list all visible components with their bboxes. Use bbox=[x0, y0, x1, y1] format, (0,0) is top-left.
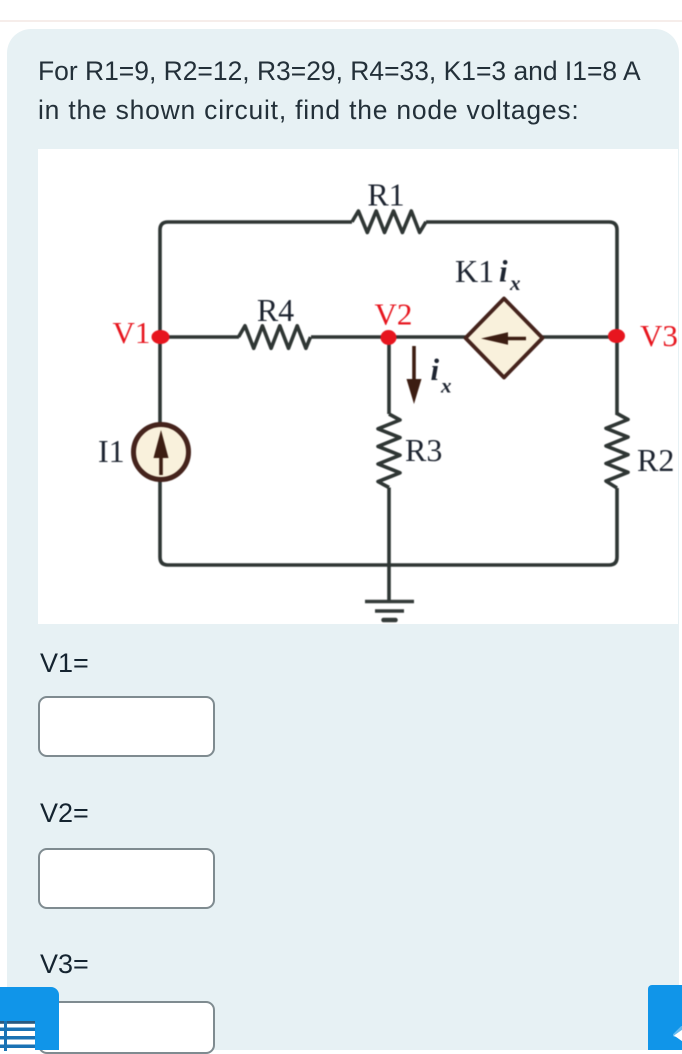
svg-text:K1: K1 bbox=[455, 253, 494, 289]
question text bbox=[38, 52, 682, 129]
svg-text:i: i bbox=[499, 254, 508, 289]
svg-text:I1: I1 bbox=[98, 433, 125, 469]
wire top-left from R1 to corner down to I1 bbox=[160, 222, 352, 423]
current source I1 bbox=[134, 425, 189, 480]
answer input V1 bbox=[38, 696, 215, 757]
answer input V3 bbox=[38, 1001, 215, 1054]
dependent source K1ix diamond bbox=[466, 299, 543, 378]
answer label V2= bbox=[40, 798, 89, 828]
chevron left bbox=[674, 1030, 682, 1042]
bottom-left blue button with table icon bbox=[0, 987, 59, 1050]
svg-text:R4: R4 bbox=[257, 292, 294, 328]
svg-text:R1: R1 bbox=[367, 177, 404, 213]
node V1 dot bbox=[152, 330, 170, 344]
svg-text:R3: R3 bbox=[405, 432, 442, 468]
wire R3 to ground bbox=[387, 488, 391, 601]
wire V1 to R4 bbox=[160, 335, 239, 339]
bottom-right blue button with chevron bbox=[648, 985, 682, 1050]
svg-text:V2: V2 bbox=[375, 297, 413, 332]
svg-text:x: x bbox=[509, 271, 521, 295]
node V3 dot bbox=[608, 329, 625, 343]
current arrow ix bbox=[412, 346, 416, 384]
answer label V3= bbox=[40, 949, 89, 979]
node V2 dot bbox=[381, 330, 397, 345]
resistor R1 bbox=[352, 211, 426, 233]
answer input V2 bbox=[38, 848, 215, 909]
wire bottom loop R2 bottom to I1 bottom bbox=[160, 481, 617, 565]
wire V2 down to R3 bbox=[387, 337, 391, 414]
svg-text:V3: V3 bbox=[640, 318, 678, 353]
svg-text:R2: R2 bbox=[637, 442, 674, 478]
svg-text:x: x bbox=[440, 374, 452, 398]
header divider line bbox=[0, 20, 682, 22]
ground bbox=[365, 600, 414, 604]
circuit image panel bbox=[38, 149, 678, 624]
wire top-right from R1 to corner down to R2 bbox=[426, 222, 617, 415]
answer label V1= bbox=[40, 648, 89, 678]
table icon bbox=[0, 1021, 35, 1054]
wire diamond to V3 bbox=[542, 335, 617, 339]
resistor R4 bbox=[239, 326, 311, 349]
resistor R3 bbox=[378, 414, 400, 488]
svg-text:i: i bbox=[431, 352, 440, 387]
svg-text:V1: V1 bbox=[113, 315, 151, 350]
wire R4 to diamond bbox=[311, 335, 466, 339]
resistor R2 bbox=[606, 414, 628, 489]
